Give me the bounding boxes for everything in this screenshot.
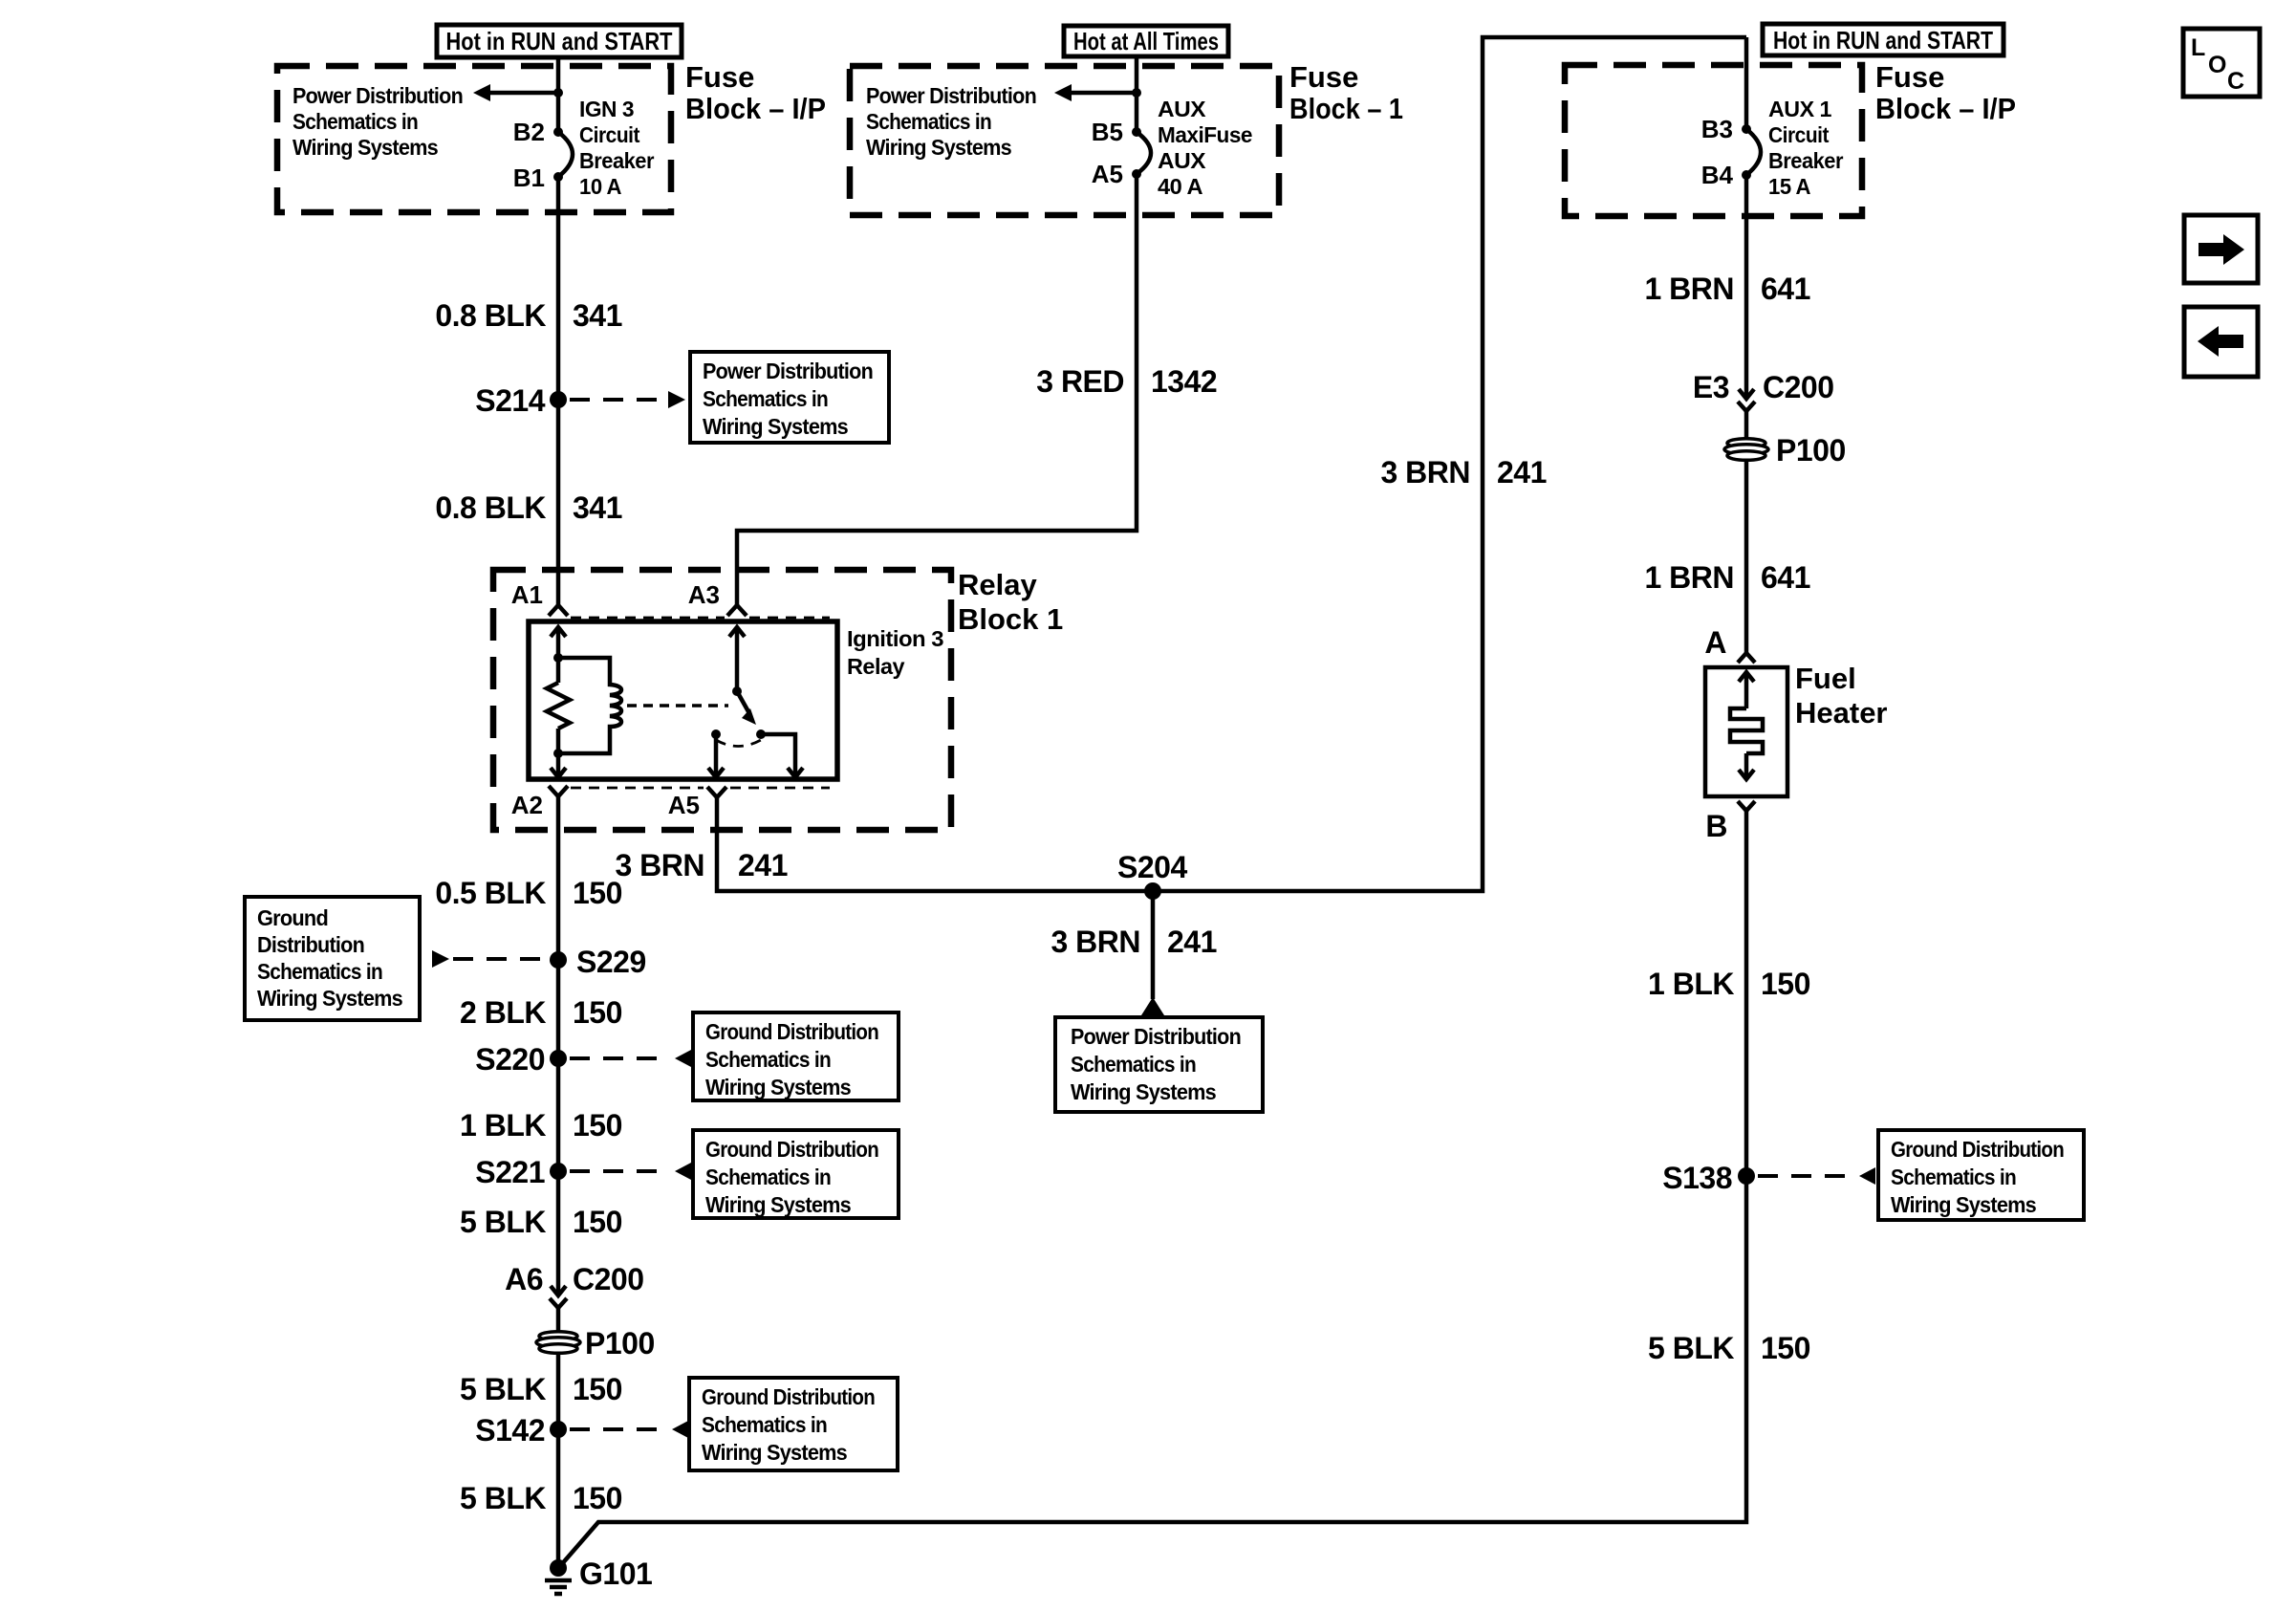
connector pin A3 [727,605,747,616]
svg-text:3 RED: 3 RED [1036,364,1124,399]
svg-text:0.8 BLK: 0.8 BLK [435,490,546,525]
svg-text:Ground: Ground [257,905,328,930]
connector C200 inline symbol (right) [1739,389,1754,399]
relay block 1 dashed box [493,570,951,830]
svg-text:150: 150 [1761,967,1810,1001]
next-page arrow [2199,234,2244,265]
reference box (S204): Power Distribution [1055,1017,1263,1112]
svg-text:Hot in RUN and START: Hot in RUN and START [446,27,673,55]
relay coil top node [553,653,563,663]
svg-text:B4: B4 [1701,161,1734,189]
svg-text:5 BLK: 5 BLK [460,1205,546,1239]
svg-text:Block – 1: Block – 1 [1289,92,1403,125]
svg-text:1 BLK: 1 BLK [1648,967,1734,1001]
svg-text:150: 150 [573,1372,622,1406]
svg-text:S138: S138 [1662,1161,1732,1195]
svg-text:Breaker: Breaker [579,148,655,173]
S204 branch to power distribution [1151,891,1156,999]
circuit breaker AUX 1, 15A : pins B3/B4 [1744,37,1749,131]
svg-text:341: 341 [573,490,622,525]
svg-text:Hot in RUN and START: Hot in RUN and START [1773,26,1993,54]
svg-text:Power Distribution: Power Distribution [1071,1024,1241,1049]
svg-text:0.5 BLK: 0.5 BLK [435,876,546,910]
svg-text:10 A: 10 A [579,174,621,199]
connector pin A1 [549,605,568,616]
svg-text:A5: A5 [1092,160,1123,188]
wire 3 BRN 241 from relay A5 [717,37,1746,891]
svg-text:S229: S229 [576,945,646,979]
circuit breaker IGN 3 arc [558,132,573,177]
prev-page arrow box [2184,307,2258,377]
reference arrowhead S221 [675,1163,691,1180]
svg-text:Schematics in: Schematics in [1071,1052,1196,1077]
relay contact dashed arc [716,740,761,747]
reference arrowhead S220 [675,1050,691,1067]
relay A5 branch [714,734,719,776]
svg-text:641: 641 [1761,272,1810,306]
wire W3 segment to fuel heater [1744,411,1749,653]
svg-text:150: 150 [573,1108,622,1143]
relay coil pin line (A1-A2) [551,627,566,637]
svg-text:Hot at All Times: Hot at All Times [1073,27,1219,55]
svg-text:B: B [1705,809,1727,843]
splice S229 [550,951,567,969]
svg-text:A: A [1704,625,1726,660]
node Hot in RUN and START (right) [1763,24,2004,55]
svg-text:Heater: Heater [1795,696,1888,729]
relay coil bottom node [553,749,563,758]
svg-text:AUX: AUX [1158,148,1206,173]
relay switch pin (A3) [729,627,745,637]
svg-text:3 BRN: 3 BRN [1380,455,1470,490]
fuel heater element shaft [1744,674,1749,708]
svg-text:B3: B3 [1701,115,1733,143]
node Hot in RUN and START (left) [437,25,682,57]
pin B5 dot [1132,127,1141,137]
reference box (S142): Ground Distribution [689,1378,898,1470]
relay coil resistor [547,683,570,729]
svg-text:Block – I/P: Block – I/P [1875,92,2016,125]
connector pass-through P100 at 584,1404 [539,1332,577,1341]
pin B1 dot [553,172,563,182]
svg-text:Wiring Systems: Wiring Systems [292,135,438,160]
reference box (S221): Ground Distribution [693,1130,899,1218]
svg-text:Schematics in: Schematics in [866,109,991,134]
svg-text:B1: B1 [513,163,545,192]
svg-text:Schematics in: Schematics in [257,959,382,984]
reference dash S220 [570,1056,669,1060]
connector pin A2 [549,786,568,796]
wire W3 below fuel heater [560,811,1746,1566]
fuse block I/P (right) dashed box [1565,65,1862,216]
reference dash S142 [570,1427,667,1431]
svg-text:341: 341 [573,298,622,333]
svg-text:A6: A6 [505,1262,543,1296]
svg-text:Fuse: Fuse [1875,60,1944,94]
ground G101 dot [550,1559,567,1577]
svg-text:B5: B5 [1092,118,1123,146]
svg-text:S220: S220 [475,1042,545,1077]
connector C200 inline symbol (left) [551,1286,566,1295]
svg-text:2 BLK: 2 BLK [460,995,546,1030]
reference arrowhead S229 [432,950,449,968]
svg-text:A5: A5 [668,791,700,819]
svg-text:O: O [2208,52,2226,78]
relay contact NO dot [711,729,721,739]
svg-text:A1: A1 [511,580,543,609]
arrowhead to power distribution (middle) [1054,84,1072,101]
svg-text:641: 641 [1761,560,1810,595]
wire W1 mid segment [556,177,561,605]
svg-text:IGN 3: IGN 3 [579,97,634,121]
svg-text:S221: S221 [475,1155,545,1189]
svg-text:241: 241 [738,848,788,882]
svg-text:Schematics in: Schematics in [702,1412,827,1437]
reference box (S214): Power Distribution [690,352,889,443]
splice S204 [1144,882,1161,900]
svg-text:3 BRN: 3 BRN [615,848,704,882]
svg-text:Schematics in: Schematics in [705,1165,831,1189]
svg-text:40 A: 40 A [1158,174,1202,199]
svg-text:1 BRN: 1 BRN [1644,560,1734,595]
reference dash S138 [1758,1174,1857,1178]
ground G101 bars [545,1578,572,1583]
svg-text:Relay: Relay [847,654,905,679]
fuse block 1 dashed box [850,66,1279,215]
svg-text:MaxiFuse: MaxiFuse [1158,122,1252,147]
svg-text:1 BRN: 1 BRN [1644,272,1734,306]
svg-text:Ground Distribution: Ground Distribution [705,1137,878,1162]
relay contact NC dot [756,729,766,739]
svg-text:Fuel: Fuel [1795,662,1856,695]
reference dash S221 [570,1169,669,1173]
svg-text:241: 241 [1167,925,1217,959]
svg-text:0.8 BLK: 0.8 BLK [435,298,546,333]
svg-text:Ignition 3: Ignition 3 [847,626,943,651]
svg-text:P100: P100 [1776,433,1846,468]
prev-page arrow [2198,326,2243,357]
node Hot at All Times [1064,26,1228,56]
relay switch pivot dot [732,686,742,696]
wire W2 top segment [1135,55,1139,134]
branch arrow to power distribution (middle) [1072,91,1137,96]
svg-text:Schematics in: Schematics in [705,1047,831,1072]
relay Ignition 3 Relay solid box [529,621,837,779]
reference arrowhead S214 [668,391,685,408]
svg-text:AUX 1: AUX 1 [1768,97,1832,121]
relay socket fine dashes [571,617,725,620]
connector pass-through P100 at 1827,470 [1727,439,1765,448]
reference box (S220): Ground Distribution [693,1012,899,1100]
reference dash S229 [453,957,547,961]
svg-text:Breaker: Breaker [1768,148,1844,173]
relay switch blade arrowhead [742,708,756,725]
junction dot branch (middle) [1132,88,1141,98]
svg-text:Circuit: Circuit [1768,122,1830,147]
pin B4 dot [1742,170,1751,180]
svg-text:Schematics in: Schematics in [703,386,828,411]
svg-text:G101: G101 [579,1557,652,1591]
svg-text:C200: C200 [1763,370,1834,404]
svg-text:Wiring Systems: Wiring Systems [705,1192,851,1217]
svg-text:Power Distribution: Power Distribution [292,83,463,108]
reference dash S214 [570,398,669,402]
svg-text:Wiring Systems: Wiring Systems [1891,1192,2036,1217]
pin B2 dot [553,127,563,137]
relay NC branch [761,734,795,776]
svg-text:S204: S204 [1117,850,1187,884]
svg-text:Wiring Systems: Wiring Systems [1071,1079,1216,1104]
svg-text:S214: S214 [475,383,545,418]
svg-text:Ground Distribution: Ground Distribution [1891,1137,2064,1162]
fuel heater element [1739,672,1754,682]
connector pin B (fuel heater) [1738,801,1755,811]
svg-text:150: 150 [573,1481,622,1515]
svg-text:Wiring Systems: Wiring Systems [702,1440,847,1465]
reference arrowhead S204 [1141,997,1164,1015]
svg-text:Relay: Relay [958,568,1037,601]
svg-text:Power Distribution: Power Distribution [866,83,1036,108]
svg-text:15 A: 15 A [1768,174,1810,199]
svg-text:Schematics in: Schematics in [1891,1165,2016,1189]
fuel heater box [1705,667,1787,796]
reference arrowhead S142 [672,1421,688,1438]
connector pin A5 [707,787,726,797]
svg-text:AUX: AUX [1158,97,1206,121]
svg-text:Wiring Systems: Wiring Systems [866,135,1011,160]
coil-switch dashed link [627,704,728,708]
svg-text:5 BLK: 5 BLK [460,1372,546,1406]
splice S220 [550,1050,567,1067]
relay coil bottom lead [556,729,561,776]
arrowhead to power distribution (left) [473,84,490,101]
svg-text:150: 150 [1761,1331,1810,1365]
svg-text:C200: C200 [573,1262,644,1296]
reference arrowhead S138 [1859,1167,1875,1185]
reference box (S138): Ground Distribution [1878,1130,2084,1220]
svg-text:Block – I/P: Block – I/P [685,92,826,125]
wire W3 from B4 down [1744,175,1749,399]
svg-text:E3: E3 [1693,370,1729,404]
junction dot branch (left) [553,88,563,98]
svg-text:S142: S142 [475,1413,545,1448]
pin B3 dot [1742,124,1751,134]
svg-text:Circuit: Circuit [579,122,640,147]
relay switch blade [737,691,750,715]
svg-text:150: 150 [573,995,622,1030]
svg-text:Wiring Systems: Wiring Systems [257,986,402,1011]
wire W1 lower segment [556,1308,561,1565]
svg-text:150: 150 [573,1205,622,1239]
svg-text:Power Distribution: Power Distribution [703,359,873,383]
svg-text:C: C [2227,68,2244,95]
wire 3 RED 1342 from A5 down and left to relay A3 [737,174,1137,605]
wire W1 top segment [556,55,561,134]
branch arrow to power distribution [490,91,558,96]
next-page arrow box [2184,215,2258,283]
svg-text:Block 1: Block 1 [958,602,1063,636]
svg-text:5 BLK: 5 BLK [1648,1331,1734,1365]
svg-text:5 BLK: 5 BLK [460,1481,546,1515]
svg-text:B2: B2 [513,118,545,146]
circuit breaker AUX 1 arc [1746,129,1761,175]
svg-text:Distribution: Distribution [257,932,364,957]
LOC page symbol box [2183,29,2260,97]
splice S214 [550,391,567,408]
wire W1 from A2 down [556,796,561,1295]
svg-text:A3: A3 [688,580,720,609]
relay coil winding [558,658,621,753]
splice S221 [550,1163,567,1180]
svg-text:Fuse: Fuse [1289,60,1358,94]
pin A5 dot [1132,169,1141,179]
svg-text:P100: P100 [585,1326,655,1361]
svg-text:1342: 1342 [1151,364,1217,399]
svg-text:Wiring Systems: Wiring Systems [705,1075,851,1099]
svg-text:Schematics in: Schematics in [292,109,418,134]
svg-text:241: 241 [1497,455,1547,490]
svg-text:L: L [2191,34,2205,61]
svg-text:Ground Distribution: Ground Distribution [705,1019,878,1044]
svg-text:Fuse: Fuse [685,60,754,94]
splice S138 [1738,1167,1755,1185]
svg-text:A2: A2 [511,791,543,819]
reference box (S229): Ground Distribution [245,897,420,1020]
svg-text:Wiring Systems: Wiring Systems [703,414,848,439]
splice S142 [550,1421,567,1438]
svg-text:1 BLK: 1 BLK [460,1108,546,1143]
fuse block I/P (left) dashed box [277,66,671,212]
fuse AUX MaxiFuse arc [1137,132,1151,174]
svg-text:Ground Distribution: Ground Distribution [702,1384,875,1409]
svg-text:3 BRN: 3 BRN [1051,925,1140,959]
